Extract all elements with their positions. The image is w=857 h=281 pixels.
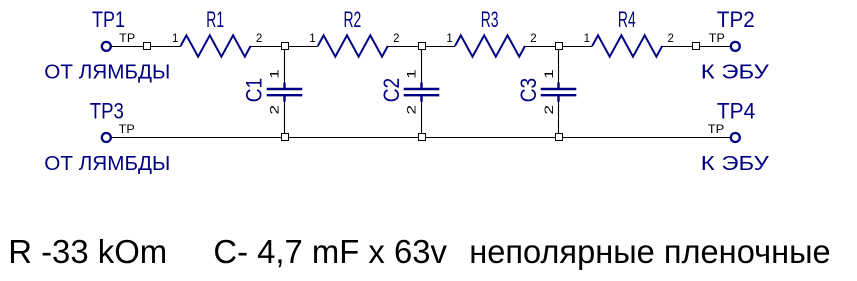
svg-text:R1: R1 — [206, 7, 224, 32]
svg-text:R4: R4 — [618, 7, 636, 32]
capacitor C2 — [379, 69, 440, 114]
wire top rail segment R3 to R4 — [525, 46, 592, 48]
svg-text:2: 2 — [544, 105, 556, 115]
node A bottom (C1) — [282, 134, 289, 141]
wire C2 lower vertical — [421, 101, 423, 138]
svg-text:ОТ ЛЯМБДЫ: ОТ ЛЯМБДЫ — [44, 62, 170, 84]
node A top (C1) — [282, 43, 289, 50]
svg-text:1: 1 — [172, 33, 178, 45]
capacitor C1 — [242, 69, 303, 114]
test point TP1 — [92, 7, 136, 51]
wire C1 upper vertical — [284, 47, 286, 84]
wire top rail segment R1 to R2 — [251, 46, 318, 48]
wire top rail segment R4 to TP2 — [662, 46, 730, 48]
capacitor C3 — [516, 69, 576, 114]
svg-text:2: 2 — [256, 33, 262, 45]
svg-text:1: 1 — [309, 33, 315, 45]
svg-text:ОТ ЛЯМБДЫ: ОТ ЛЯМБДЫ — [44, 153, 170, 175]
svg-text:TP: TP — [119, 33, 135, 45]
svg-text:TP2: TP2 — [717, 7, 755, 32]
svg-text:1: 1 — [407, 69, 419, 79]
junction square TP2 pin — [693, 43, 700, 50]
svg-text:C2: C2 — [379, 78, 404, 103]
resistor R1 — [172, 7, 262, 57]
svg-text:TP1: TP1 — [92, 7, 125, 32]
test point TP4 — [708, 98, 756, 142]
svg-text:C- 4,7 mF x 63v: C- 4,7 mF x 63v — [213, 234, 447, 271]
svg-text:1: 1 — [544, 69, 556, 79]
wire C2 upper vertical — [421, 47, 423, 84]
junction square TP1 pin — [144, 43, 151, 50]
svg-text:неполярные пленочные: неполярные пленочные — [469, 234, 831, 271]
svg-text:TP: TP — [709, 33, 725, 45]
svg-text:C1: C1 — [242, 78, 267, 103]
svg-text:1: 1 — [446, 33, 452, 45]
node C bottom (C3) — [556, 134, 563, 141]
test point TP2 — [709, 7, 755, 51]
wire bottom rail TP3 to TP4 — [112, 137, 731, 139]
svg-text:R -33 kOm: R -33 kOm — [8, 234, 167, 271]
svg-text:R3: R3 — [481, 7, 499, 32]
wire top rail segment TP1 to R1 — [112, 46, 181, 48]
node B bottom (C2) — [419, 134, 426, 141]
svg-text:R2: R2 — [344, 7, 362, 32]
svg-text:К ЭБУ: К ЭБУ — [701, 62, 769, 84]
test point TP3 — [90, 98, 135, 142]
svg-text:TP3: TP3 — [90, 98, 124, 123]
wire C1 lower vertical — [284, 101, 286, 138]
wire C3 upper vertical — [558, 47, 560, 84]
svg-text:К ЭБУ: К ЭБУ — [701, 153, 769, 175]
svg-text:1: 1 — [269, 69, 281, 79]
svg-text:2: 2 — [393, 33, 399, 45]
svg-text:2: 2 — [530, 33, 536, 45]
resistor R2 — [309, 7, 399, 57]
svg-text:2: 2 — [269, 105, 281, 115]
svg-text:C3: C3 — [516, 78, 541, 103]
node C top (C3) — [556, 43, 563, 50]
svg-text:2: 2 — [407, 105, 419, 115]
wire top rail segment R2 to R3 — [388, 46, 455, 48]
svg-text:2: 2 — [668, 33, 674, 45]
node B top (C2) — [419, 43, 426, 50]
svg-text:TP4: TP4 — [717, 98, 755, 123]
svg-text:TP: TP — [708, 124, 725, 136]
wire C3 lower vertical — [558, 101, 560, 138]
resistor R4 — [584, 7, 674, 57]
resistor R3 — [446, 7, 536, 57]
svg-text:1: 1 — [584, 33, 590, 45]
svg-text:TP: TP — [119, 124, 135, 136]
